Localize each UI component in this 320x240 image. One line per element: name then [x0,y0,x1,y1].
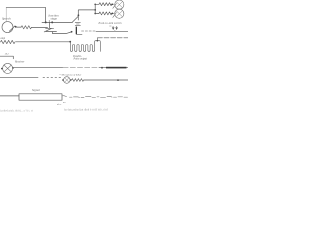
heavy segment on receiver wire [106,67,127,69]
switch contacts [112,27,115,30]
slash across M1 [9,26,15,31]
receiver cross [4,65,11,72]
node dot at M1 output [15,26,17,28]
wire to R2 [95,3,99,5]
svg-text:Signal: Signal [32,88,40,92]
lamp L2 [115,9,124,18]
feed vertical [77,10,79,20]
node dot right of mic [70,79,72,81]
lamp L1 left slash [113,3,117,8]
resistor R5 [72,79,84,82]
dashed output wire [97,37,128,39]
wire top feed horizontal [78,9,95,11]
battery thick bar [76,27,77,35]
node dot on talker wire [117,79,119,81]
transistor plate [46,27,54,29]
node dot delay in [69,41,71,43]
node dot left of mic [62,79,64,81]
wire top horizontal [6,7,45,9]
lamp L1 [115,0,124,9]
node dot on feed [78,14,80,16]
wire R2 to lamp [111,3,114,5]
node dot [112,13,114,15]
receiver symbol [3,63,13,73]
receiver top wire [0,56,13,59]
svg-text:Receiver: Receiver [14,61,25,64]
wire drop to base line [45,8,47,22]
talker line solid part [0,77,38,79]
box signal unit [19,94,62,100]
push-to-talk wire [96,30,128,32]
svg-text:sw.: sw. [109,25,112,28]
battery bottom stub [76,33,82,35]
wire R4 to delay line [16,41,71,43]
node dot on receiver wire [101,67,103,69]
svg-text:Pulse output: Pulse output [73,58,88,61]
receiver wire [13,67,63,69]
wire R3 to lamp [111,12,114,14]
node dot [112,3,114,5]
talker mic cross [65,78,69,82]
talker microphone symbol [64,77,71,84]
push-to-talk dashed wire [82,30,97,32]
wire R5 right [84,79,128,81]
svg-text:stage: stage [51,17,58,21]
wire M1 to R1 [17,26,22,28]
resistor R2 [99,3,112,6]
lead down [51,32,53,34]
svg-text:i.ndted ptah. th/tti... a % t.: i.ndted ptah. th/tti... a % t. ct [0,109,33,113]
wiper wire to battery [52,32,71,33]
talker line dashed part [43,77,62,79]
wiper arrow dot [71,31,73,33]
node dot mid [94,9,96,11]
wire into box [0,95,19,97]
junction stage base wire [42,21,73,23]
node dot top [94,4,96,6]
wire M1 top riser [5,8,7,22]
squiggle annotation after box [62,96,128,98]
svg-text:amp: amp [1,37,6,40]
wire to R3 [95,13,99,15]
microphone M1 (source circle) [2,22,13,33]
lamp L2 left slash [113,13,117,18]
lower plate [46,31,57,33]
node dot right [51,21,53,23]
resistor R3 [99,12,112,15]
battery B1 plates [75,21,80,23]
node dot delay top [97,40,99,42]
transistor vertical lead [49,22,51,28]
wire R1 to junction stage [32,26,48,28]
lamp L1 cross [117,2,123,7]
delay line winding [70,41,100,52]
resistor R4 (long) [1,40,15,43]
emitter diagonal [44,29,51,32]
svg-text:Speech: Speech [2,17,11,21]
lamp L2 cross [117,11,123,16]
node dot bottom [94,13,96,15]
receiver node dot left [1,68,3,70]
node dot left [45,21,47,23]
tick to label [48,20,50,22]
tick up from delay [96,38,98,40]
svg-text:ha duta.ndtad jut dhdt b tt tf: ha duta.ndtad jut dhdt b tt tff dd t.d t… [64,107,108,111]
splitter bar [94,4,96,13]
svg-text:Microphone of Talker: Microphone of Talker [61,74,82,77]
collector diagonal to feed [73,16,79,22]
resistor R1 [21,26,32,29]
